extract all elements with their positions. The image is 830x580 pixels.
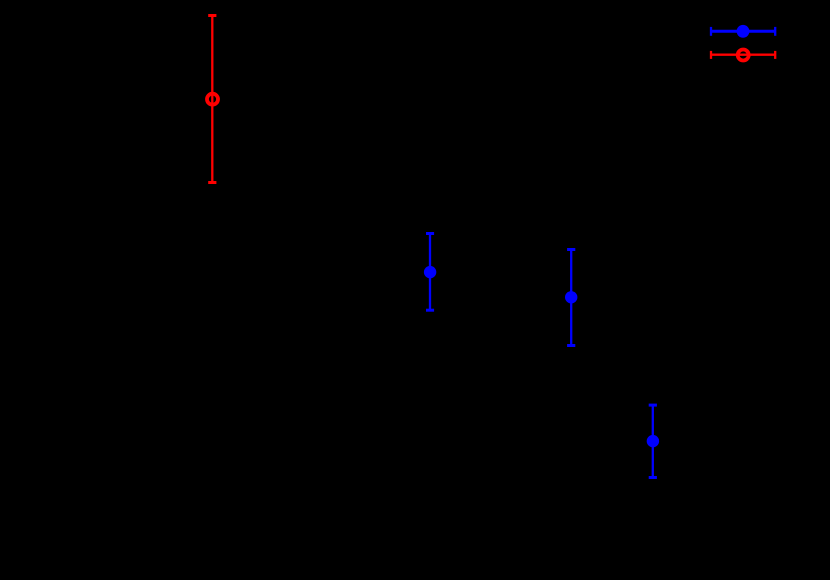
blue data point P3 marker <box>647 435 659 447</box>
red data point P0 error bar <box>208 16 216 183</box>
legend blue entry error bar <box>711 27 775 36</box>
blue data point P2 marker <box>565 291 577 303</box>
legend red entry open-circle marker <box>738 50 749 61</box>
blue data point P1 marker <box>424 266 436 278</box>
blue data point P3 error bar <box>649 405 657 477</box>
blue data point P1 error bar <box>426 234 434 311</box>
legend red entry error bar <box>711 51 775 59</box>
legend blue entry marker <box>737 25 750 38</box>
blue data point P2 error bar <box>567 250 575 346</box>
red data point P0 open-circle marker <box>207 94 218 105</box>
